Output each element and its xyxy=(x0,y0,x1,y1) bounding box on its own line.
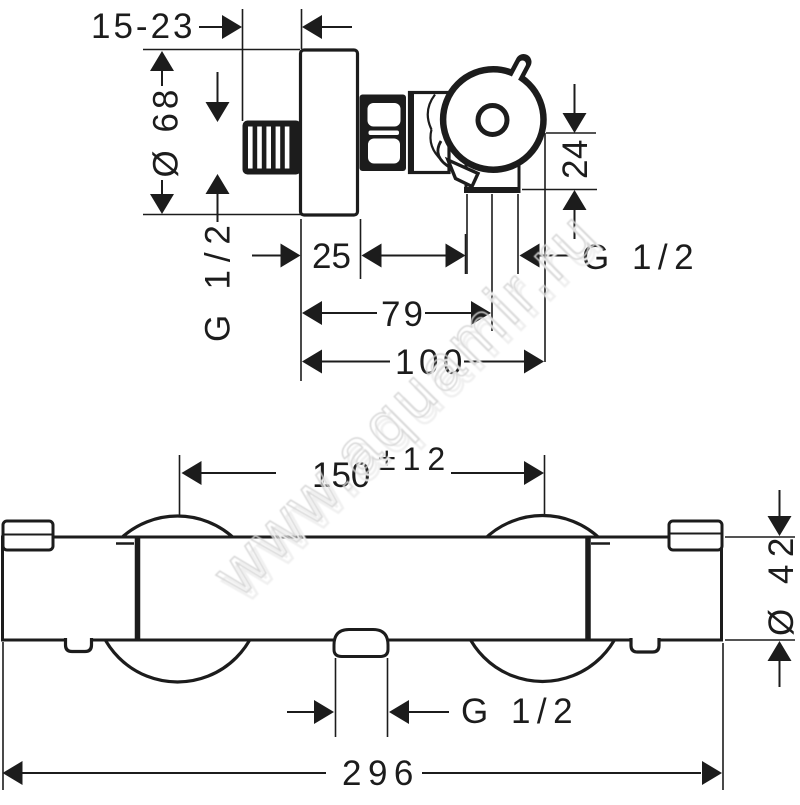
extension line flange left x=301 lower xyxy=(300,219,302,381)
dimension 150 arrow left xyxy=(182,461,202,485)
dimension D68 lower shaft xyxy=(161,180,163,195)
mixer bar body xyxy=(3,537,722,640)
dimension D68 upper shaft xyxy=(161,71,163,86)
handle hub circle xyxy=(478,106,507,135)
bottom G12 arrow right xyxy=(314,700,334,724)
hex nut window top xyxy=(368,103,401,127)
dimension 25 leader xyxy=(252,255,282,257)
dimension D68 arrow down xyxy=(150,194,174,214)
dimension 100 right shaft xyxy=(464,361,524,363)
pipe thread slot 4 xyxy=(276,127,281,169)
hex nut window bottom xyxy=(368,139,400,164)
handle knob circle xyxy=(443,69,543,169)
top G12 arrow right xyxy=(446,244,466,268)
dimension 24 lower shaft xyxy=(574,210,576,239)
dimension 79 right shaft xyxy=(425,312,471,314)
svg-text:25: 25 xyxy=(312,237,351,276)
bottom G12 arrow left xyxy=(389,700,409,724)
handle pin black xyxy=(506,62,524,96)
dimension 296 arrow right xyxy=(702,761,722,785)
outlet boss thick bottom xyxy=(464,187,521,193)
extension line outlet boss right x=518 xyxy=(517,194,519,274)
dimension 24 upper shaft xyxy=(574,84,576,114)
right wall box inner line xyxy=(670,533,721,535)
dimension D68 arrow up xyxy=(150,51,174,71)
extension line outlet axis x=492 xyxy=(491,194,493,331)
valve body thick left edge xyxy=(409,93,414,173)
extension line handle axis y=133 xyxy=(546,132,596,134)
bar divider right xyxy=(585,538,591,639)
dimension 296 arrow left xyxy=(3,761,23,785)
right mounting tab xyxy=(631,638,659,652)
bar shadow dash left xyxy=(116,542,134,545)
extension line flange right x=360.5 xyxy=(360,219,362,279)
svg-text:24: 24 xyxy=(556,139,595,179)
dimension 15-23 arrow left xyxy=(302,15,322,39)
extension line valve right x=545 xyxy=(544,133,546,362)
left mounting tab xyxy=(66,638,92,652)
dimension 296 left shaft xyxy=(23,772,327,774)
svg-text:Ø 68: Ø 68 xyxy=(147,86,186,178)
svg-text:79: 79 xyxy=(381,295,426,334)
svg-text:296: 296 xyxy=(342,754,420,793)
extension line bar right x=723 xyxy=(722,643,724,790)
extension line bar bottom y=640 right xyxy=(725,639,795,641)
extension line outlet left x=465.5 xyxy=(465,234,467,274)
center outlet fitting xyxy=(334,630,388,657)
spout stub xyxy=(448,160,478,187)
extension line wall face x=242.5 xyxy=(242,9,244,121)
grip scallop 3 xyxy=(438,141,451,168)
extension line outlet boss left x=467 xyxy=(466,194,468,274)
valve body xyxy=(410,93,450,173)
pipe thread slot 1 xyxy=(248,127,253,169)
dimension 79 arrow left xyxy=(302,301,322,325)
extension line right circle x=544.5 xyxy=(544,455,546,516)
left wall box inner line xyxy=(4,534,52,536)
top G12 left shaft xyxy=(400,255,446,257)
extension line bar left x=3 xyxy=(2,642,4,790)
svg-text:G 1/2: G 1/2 xyxy=(199,217,238,342)
svg-text:G 1/2: G 1/2 xyxy=(461,692,579,731)
bar shadow dash right xyxy=(591,542,610,545)
bar divider left xyxy=(135,538,141,639)
dimension 24 arrow up xyxy=(563,190,587,210)
dimension D42 upper shaft xyxy=(779,490,781,517)
threaded pipe body xyxy=(243,121,302,175)
shared shaft 25 to G12 xyxy=(382,255,447,257)
dimension 15-23 leader line xyxy=(199,26,223,28)
dimension D42 arrow down xyxy=(768,516,792,536)
svg-text:15-23: 15-23 xyxy=(91,7,196,46)
grip scallop 2 xyxy=(430,130,442,161)
dimension 15-23 arrow right xyxy=(222,15,242,39)
dimension 79 arrow right xyxy=(471,301,491,325)
extension line left circle x=179.5 xyxy=(179,455,181,517)
dimension 100 arrow left xyxy=(302,350,322,374)
bottom G12 leader xyxy=(287,711,314,713)
extension line outlet face y=189.5 xyxy=(522,189,597,191)
hex nut block xyxy=(360,95,407,172)
pipe thread slot 2 xyxy=(257,127,262,169)
dimension 100 left shaft xyxy=(322,361,390,363)
dimension 150 right shaft xyxy=(451,472,524,474)
outlet boss xyxy=(466,165,519,190)
pipe thread dim arrow down xyxy=(206,102,230,122)
extension line outlet left x=335.5 xyxy=(335,658,337,737)
wall flange xyxy=(301,50,358,215)
pipe thread dim upper shaft xyxy=(217,72,219,103)
grip scallop 1 xyxy=(428,95,435,130)
right wall box xyxy=(669,521,722,550)
dimension 79 left shaft xyxy=(322,312,377,314)
right escutcheon circle xyxy=(460,516,626,682)
dimension D42 lower shaft xyxy=(779,661,781,687)
dimension 24 arrow down xyxy=(563,113,587,133)
extension line flange top y=49.5 xyxy=(143,49,300,51)
top G12 arrow left xyxy=(520,244,540,268)
dimension D42 arrow up xyxy=(768,641,792,661)
extension line flange face top x=301.5 xyxy=(301,9,303,49)
pipe thread slot 3 xyxy=(266,127,271,169)
pipe thread dim lower shaft xyxy=(217,194,219,222)
handle pin white slot xyxy=(505,64,523,97)
bottom G12 tail xyxy=(409,711,449,713)
left escutcheon circle xyxy=(95,516,261,682)
extension line flange bottom y=214.5 xyxy=(143,214,301,216)
dimension 15-23 tail line xyxy=(322,26,352,28)
top G12 tail xyxy=(540,255,571,257)
extension line outlet right x=387.5 xyxy=(387,658,389,737)
dimension 100 arrow right xyxy=(524,350,544,374)
dimension 25 arrow right xyxy=(281,244,301,268)
left wall box xyxy=(3,521,53,550)
extension line bar top y=537 right xyxy=(725,536,795,538)
dimension 25 arrow left xyxy=(362,244,382,268)
dimension 150 left shaft xyxy=(202,472,277,474)
pipe thread slot 5 xyxy=(285,127,290,169)
svg-text:Ø 42: Ø 42 xyxy=(762,530,800,636)
dimension 296 right shaft xyxy=(422,772,701,774)
pipe thread dim arrow up xyxy=(206,174,230,194)
hex nut slit xyxy=(369,131,400,136)
dimension 150 arrow right xyxy=(524,461,544,485)
